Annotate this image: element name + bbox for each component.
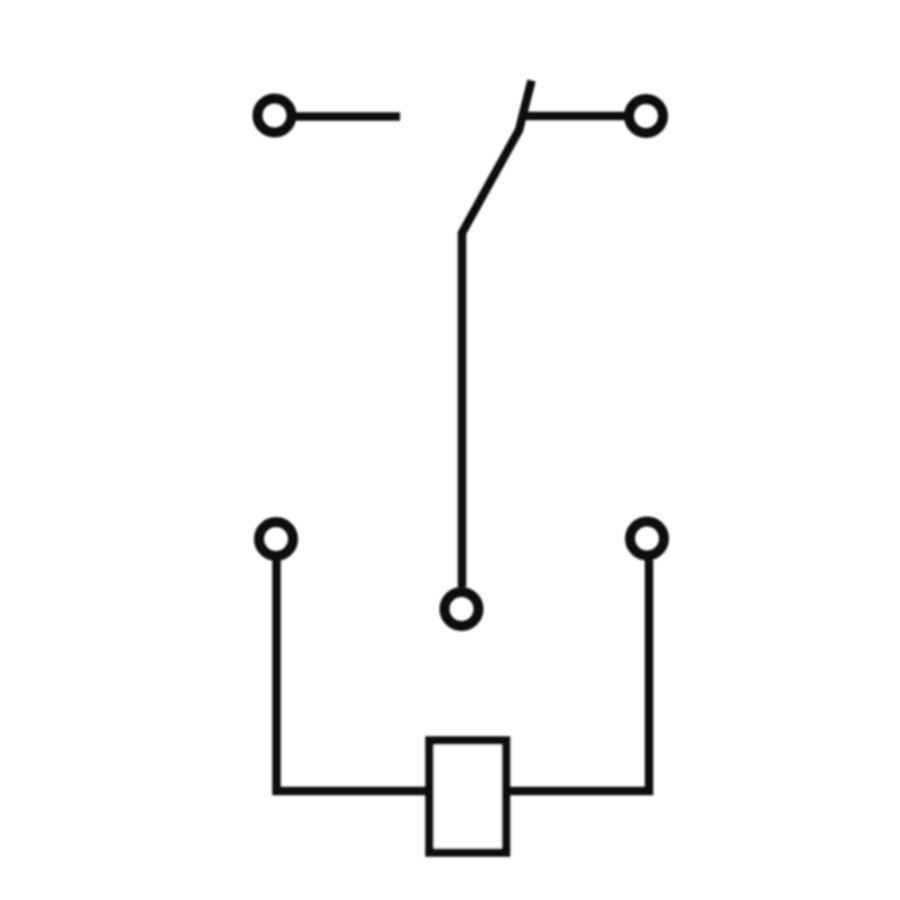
coil K1: [430, 741, 507, 853]
wire (left coil lead, vertical): [272, 560, 281, 795]
terminal 2 (top-right fixed contact): [629, 99, 663, 133]
wire (right coil lead, vertical): [645, 560, 654, 795]
switch blade (movable contact arm): [462, 81, 532, 588]
wire (right coil lead, horizontal): [510, 787, 653, 796]
terminal 5 (coil lead, right): [630, 522, 664, 556]
terminal 3 (common pole): [445, 592, 479, 626]
wire (left coil lead, horizontal): [273, 787, 427, 796]
wire (top-left contact stub): [295, 112, 400, 121]
terminal 1 (top-left fixed contact): [258, 99, 292, 133]
terminal 4 (coil lead, left): [259, 522, 293, 556]
wire (top-right contact to blade pivot): [521, 112, 626, 121]
